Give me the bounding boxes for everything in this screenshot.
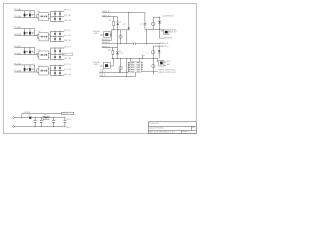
- capacitor C4: [132, 41, 136, 45]
- buzzer LS1: [163, 30, 169, 34]
- wire: [119, 69, 121, 72]
- wire: [102, 35, 112, 41]
- wire: [112, 48, 114, 51]
- diode D7: [29, 115, 32, 119]
- wire: [48, 69, 50, 73]
- connector pin J2-1: [13, 117, 15, 119]
- resistor R1b: [59, 11, 61, 17]
- wire: [14, 71, 38, 73]
- date text: [149, 130, 189, 133]
- resistor R3c: [54, 54, 56, 60]
- wire: [102, 16, 118, 18]
- wire: [14, 28, 34, 30]
- net label GND_ISO: [64, 40, 71, 42]
- net label OUT_A: [170, 30, 178, 34]
- resistor R4d: [59, 71, 61, 77]
- wire: [49, 11, 51, 21]
- diode D6: [158, 21, 161, 29]
- power port VCC_ISO: [62, 53, 72, 55]
- diode D2b: [26, 29, 33, 36]
- svg-text:GND_A: GND_A: [66, 126, 71, 129]
- capacitor C7: [34, 118, 38, 127]
- net label AC1_L: [102, 10, 111, 13]
- svg-text:W04M: W04M: [94, 64, 98, 66]
- wire: [14, 35, 38, 37]
- net label P1-1(A): [14, 8, 21, 11]
- wire: [113, 26, 115, 30]
- capacitor C6: [152, 64, 155, 75]
- net label MB2: [100, 71, 106, 73]
- wire: [136, 43, 160, 44]
- wire: [14, 64, 34, 66]
- node: [128, 12, 129, 13]
- net label +5V: [66, 118, 71, 121]
- svg-text:R9: R9: [109, 20, 111, 22]
- svg-text:/ALARM_B1: /ALARM_B1: [160, 42, 169, 45]
- resistor R1a: [54, 11, 56, 17]
- svg-text:D7: D7: [29, 115, 31, 117]
- diode D4b: [26, 65, 33, 72]
- connector pin J2-2: [13, 126, 15, 128]
- svg-text:SENSE_B0: SENSE_B0: [102, 39, 111, 41]
- net label VB2: [102, 46, 111, 48]
- wire: [38, 18, 39, 19]
- net label GND_ISO: [64, 20, 71, 22]
- net label /OPTO_2: [64, 30, 72, 32]
- net label VCC_ISO: [64, 15, 71, 17]
- wire: [113, 17, 115, 21]
- resistor R10: [108, 50, 114, 55]
- wire: [14, 46, 34, 48]
- diode D2: [123, 24, 130, 30]
- rail A: [112, 29, 130, 30]
- svg-text:+5V_A: +5V_A: [66, 118, 71, 121]
- net label NA2: [160, 42, 169, 45]
- node: [113, 16, 114, 17]
- wire: [146, 29, 147, 44]
- wire: [157, 59, 159, 63]
- svg-text:STATUS_OUTPUT_A-12: STATUS_OUTPUT_A-12: [159, 69, 176, 72]
- svg-text:C7: C7: [36, 120, 38, 122]
- resistor R1d: [59, 16, 61, 22]
- wire: [48, 15, 50, 19]
- svg-text:/OPTO_4: /OPTO_4: [64, 64, 72, 66]
- wire: [142, 55, 143, 58]
- wire: [37, 34, 39, 37]
- net label MR1: [159, 69, 176, 72]
- wire: [100, 34, 112, 36]
- svg-text:Sheet 1: Sheet 1: [183, 130, 189, 133]
- net label AC1_N: [102, 14, 111, 17]
- svg-text:D1: D1: [119, 22, 121, 24]
- net label VAC1: [162, 16, 174, 18]
- docnum text: [149, 126, 195, 129]
- svg-text:C1: C1: [140, 24, 142, 26]
- wire: [48, 35, 50, 39]
- wire: [116, 30, 118, 48]
- svg-text:Date 2-27-1996 Sheet 1 of 1: Date 2-27-1996 Sheet 1 of 1: [149, 130, 175, 133]
- svg-text:VCC+5V: VCC+5V: [63, 113, 69, 115]
- wire: [50, 75, 64, 77]
- border frame: [3, 3, 196, 133]
- resistor R3a: [54, 48, 56, 55]
- led DS1: [159, 60, 164, 66]
- svg-text:SENSE_B3: SENSE_B3: [102, 46, 111, 48]
- wire: [117, 17, 119, 22]
- wire: [37, 53, 39, 54]
- wire: [131, 59, 140, 62]
- resistor R4a: [54, 65, 56, 71]
- net label LR1: [166, 61, 171, 63]
- wire: [49, 48, 51, 60]
- net label VCC_ISO: [64, 35, 71, 37]
- optocoupler U2: [37, 31, 48, 41]
- diode D2a: [24, 29, 26, 36]
- svg-text:+5V BUS: +5V BUS: [23, 112, 30, 114]
- wire: [152, 59, 154, 65]
- wire: [38, 36, 39, 39]
- net label VB0: [102, 39, 111, 41]
- svg-text:R10: R10: [108, 50, 111, 52]
- capacitor C8: [40, 118, 44, 127]
- svg-text:LED1: LED1: [166, 61, 171, 63]
- svg-text:/ALARM_A1: /ALARM_A1: [164, 36, 173, 39]
- capacitor C1: [140, 13, 146, 30]
- diode D3: [116, 51, 123, 55]
- net label P1-7(D): [14, 63, 21, 65]
- resistor R2b: [59, 31, 61, 37]
- svg-text:C4: C4: [132, 41, 134, 43]
- diode D4a: [24, 65, 26, 72]
- svg-text:DRV_B: DRV_B: [164, 46, 169, 48]
- wire: [38, 72, 39, 73]
- wire: [152, 17, 154, 22]
- svg-text:GND_ISO: GND_ISO: [64, 74, 71, 76]
- wire: [50, 47, 64, 49]
- power port VCC: [62, 112, 74, 115]
- title text: [149, 123, 159, 125]
- svg-text:/OPTO_3: /OPTO_3: [64, 47, 72, 49]
- net label GND2: [66, 126, 71, 129]
- wire: [50, 53, 64, 55]
- wire: [126, 30, 128, 44]
- wire: [102, 12, 145, 14]
- wire: [50, 36, 64, 38]
- svg-text:D2: D2: [123, 24, 125, 26]
- net label /OPTO_4: [64, 64, 72, 66]
- resistor R3d: [59, 54, 61, 60]
- resistor R1c: [54, 16, 56, 22]
- wire: [127, 62, 129, 72]
- wire: [50, 10, 64, 12]
- wire: [116, 54, 118, 58]
- wire: [159, 17, 161, 21]
- net label MB4: [100, 75, 106, 77]
- net label GND_ISO: [64, 74, 71, 76]
- capacitor C9: [52, 118, 56, 127]
- wire: [14, 10, 34, 12]
- svg-text:Y1: Y1: [146, 53, 148, 55]
- wire: [160, 29, 164, 38]
- net label /OPTO_1: [64, 10, 72, 12]
- resistor R4c: [54, 71, 56, 77]
- net label VB1: [102, 42, 111, 44]
- wire: [126, 59, 128, 77]
- wire: [99, 72, 135, 77]
- wire: [50, 59, 64, 61]
- wire: [50, 15, 64, 17]
- wire: [38, 55, 39, 58]
- rail B: [112, 58, 158, 59]
- net label QB: [164, 46, 169, 48]
- svg-text:ALM_OUT: ALM_OUT: [170, 31, 177, 34]
- svg-text:GND_ISO: GND_ISO: [64, 20, 71, 22]
- svg-text:CTRL_4: CTRL_4: [100, 75, 106, 77]
- svg-text:VCC_ISO: VCC_ISO: [64, 35, 71, 37]
- wire: [153, 46, 163, 47]
- wire: [34, 47, 36, 54]
- wire: [153, 17, 160, 18]
- wire: [50, 41, 64, 43]
- wire: [14, 117, 65, 118]
- wire: [117, 25, 119, 30]
- ic U5: [128, 62, 143, 73]
- wire: [34, 65, 36, 72]
- resistor R9: [109, 20, 115, 26]
- wire: [48, 53, 50, 57]
- diode D5: [158, 46, 161, 58]
- varistor RV1: [119, 30, 122, 44]
- wire: [21, 114, 23, 118]
- diode D1: [117, 22, 122, 25]
- node: [120, 43, 121, 44]
- diode D1b: [26, 11, 33, 18]
- net label LR2: [166, 64, 171, 66]
- wire: [141, 70, 158, 72]
- diode D3b: [26, 47, 33, 54]
- svg-text:GND_ISO: GND_ISO: [64, 40, 71, 42]
- bus +5V: [22, 112, 62, 114]
- net label MB3: [99, 74, 105, 76]
- resistor R2a: [54, 31, 56, 37]
- svg-text:VCC_ISO: VCC_ISO: [64, 15, 71, 17]
- svg-text:LED2: LED2: [166, 64, 171, 66]
- wire: [14, 17, 38, 19]
- svg-text:GND_ISO: GND_ISO: [64, 58, 71, 60]
- svg-text:STATUS_OUTPUT_B-12: STATUS_OUTPUT_B-12: [159, 71, 176, 74]
- label Y1: [143, 53, 147, 57]
- regulator VR1: [43, 115, 49, 120]
- net label P1-5(C): [14, 46, 21, 48]
- net label P1-6(C): [14, 53, 21, 55]
- title block: [148, 122, 196, 134]
- wire: [37, 69, 39, 72]
- net label MR2: [159, 71, 176, 74]
- svg-text:C9: C9: [55, 120, 57, 122]
- capacitor C10: [64, 118, 67, 127]
- wire: [164, 62, 166, 65]
- bridge B1: [93, 30, 110, 37]
- wire: [100, 65, 113, 67]
- wire: [34, 11, 36, 18]
- svg-text:TITLE: I/O: TITLE: I/O: [149, 123, 159, 125]
- net label NA1: [164, 36, 173, 39]
- wire: [99, 72, 128, 73]
- wire: [102, 47, 118, 48]
- svg-text:C5: C5: [143, 55, 145, 57]
- net label P1-2(A): [14, 15, 21, 18]
- optocoupler U1: [37, 11, 48, 21]
- optocoupler U3: [37, 50, 48, 60]
- wire: [112, 54, 114, 58]
- wire: [50, 64, 64, 66]
- wire: [50, 30, 64, 32]
- wire: [34, 29, 36, 36]
- resistor R2c: [54, 37, 56, 43]
- net label P1-4(B): [14, 34, 21, 36]
- diode D1a: [24, 11, 26, 18]
- transistor Q1: [151, 46, 155, 58]
- svg-text:D4: D4: [121, 53, 123, 55]
- net label VCC_ISO: [64, 69, 71, 71]
- svg-text:/OPTO_1: /OPTO_1: [64, 10, 72, 12]
- wire: [168, 31, 171, 33]
- wire: [14, 126, 65, 127]
- varistor RV2: [119, 59, 122, 73]
- net label P1-8(D): [14, 71, 21, 73]
- net label /OPTO_3: [64, 47, 72, 49]
- svg-text:/OPTO_2: /OPTO_2: [64, 30, 72, 32]
- svg-text:VR1: VR1: [44, 115, 47, 117]
- wire: [50, 20, 64, 22]
- wire: [112, 59, 114, 67]
- svg-text:12V_UNREG_IN: 12V_UNREG_IN: [162, 16, 174, 18]
- wire: [128, 13, 130, 28]
- wire: [14, 54, 38, 56]
- svg-text:C8: C8: [42, 120, 44, 122]
- capacitor C2: [151, 22, 155, 29]
- resistor R3b: [59, 48, 61, 55]
- wire: [49, 31, 51, 41]
- net label P1-3(B): [14, 27, 21, 29]
- svg-text:W04M: W04M: [94, 33, 98, 35]
- wire: [116, 48, 118, 52]
- optocoupler U4: [37, 65, 48, 75]
- wire: [49, 65, 51, 75]
- wire: [102, 43, 134, 45]
- svg-text:Document Number: Document Number: [149, 126, 164, 129]
- resistor R4b: [59, 65, 61, 71]
- wire: [145, 29, 164, 32]
- resistor R2d: [59, 37, 61, 43]
- bridge B2: [93, 62, 110, 69]
- wire: [50, 70, 64, 72]
- wire: [37, 15, 39, 18]
- net label MB1: [100, 70, 106, 72]
- net label GND_ISO: [64, 58, 71, 60]
- diode D3a: [24, 47, 26, 54]
- wire: [111, 30, 113, 35]
- svg-text:VCC_ISO: VCC_ISO: [64, 69, 71, 71]
